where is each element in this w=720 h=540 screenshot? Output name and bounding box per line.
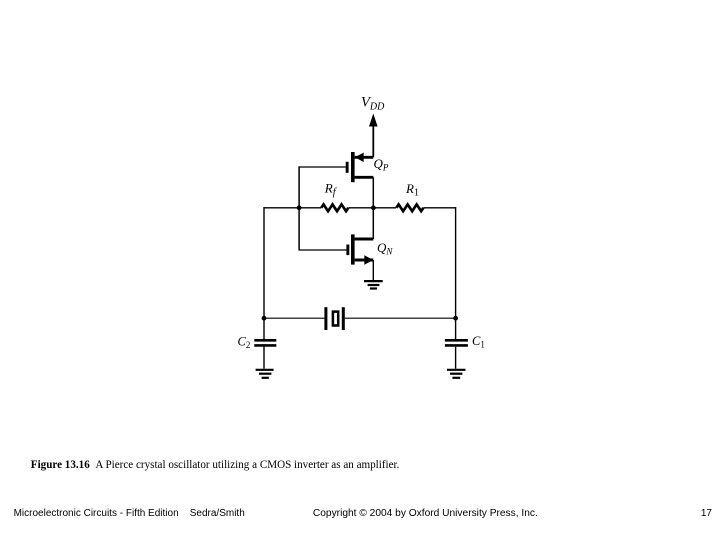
svg-text:VDD: VDD [361, 95, 385, 113]
wire C2 top [263, 318, 265, 339]
svg-text:C2: C2 [238, 335, 251, 351]
wire C2 bottom [263, 347, 265, 369]
crystal X1 [324, 307, 344, 330]
wire left column [263, 207, 265, 318]
wire C1 top [455, 318, 457, 339]
wire main node row right [424, 207, 457, 209]
wire drain column [372, 177, 374, 239]
footer center: copyright [313, 508, 538, 519]
ground C2 [256, 370, 274, 378]
wire crystal left [264, 317, 324, 319]
wire main node row left [263, 207, 321, 209]
wire input column [298, 166, 300, 250]
power VDD arrow [369, 114, 378, 158]
ground C1 [447, 370, 466, 378]
svg-text:C1: C1 [472, 334, 485, 350]
caption Figure 13.16 [31, 459, 400, 471]
wire main node row middle [349, 207, 397, 209]
capacitor C1 [445, 340, 468, 345]
resistor Rf [321, 204, 348, 211]
wire NMOS gate [299, 249, 347, 251]
footer left: book title [14, 508, 245, 519]
wire PMOS gate [299, 166, 346, 168]
svg-text:QP: QP [374, 156, 389, 173]
svg-text:R1: R1 [405, 181, 419, 199]
wire right column [455, 207, 457, 318]
wire QN source to ground [372, 260, 374, 280]
node crystal right junction [453, 316, 458, 321]
node crystal left junction [262, 316, 267, 321]
resistor R1 [396, 204, 423, 211]
footer right: page number [692, 508, 712, 519]
transistor QP [346, 152, 374, 182]
capacitor C2 [254, 340, 276, 345]
node input junction [297, 205, 302, 210]
svg-text:Rf: Rf [324, 181, 338, 199]
svg-text:QN: QN [377, 240, 393, 257]
wire crystal right [345, 317, 456, 319]
wire C1 bottom [455, 347, 457, 369]
transistor QN [346, 234, 373, 264]
ground QN [364, 281, 383, 288]
node output junction [371, 205, 376, 210]
